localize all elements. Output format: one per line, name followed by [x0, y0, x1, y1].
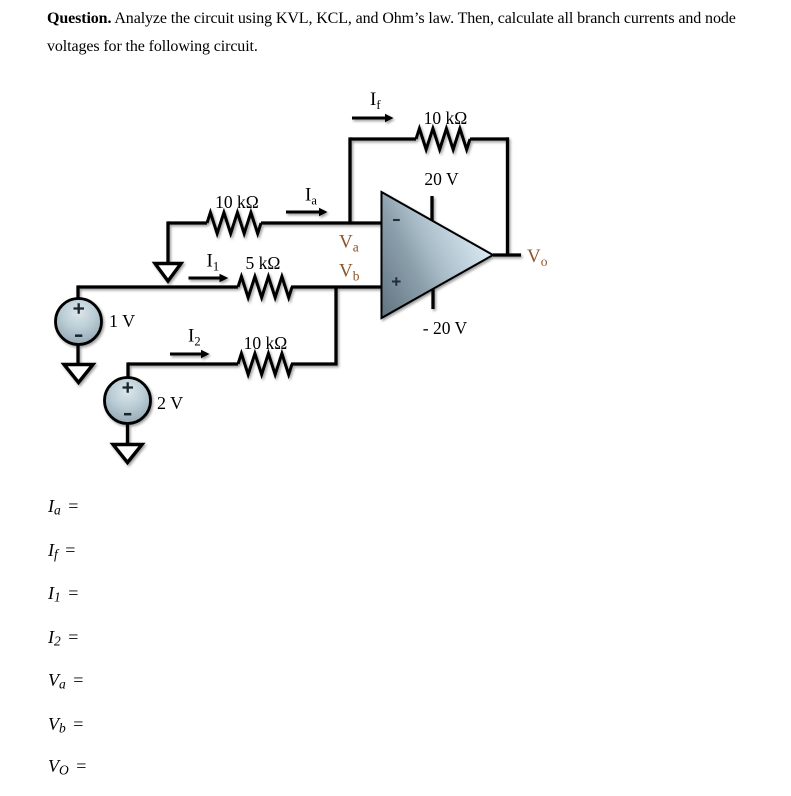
wire feedback left vertical down to inverting input	[348, 137, 351, 223]
svg-text:10 kΩ: 10 kΩ	[215, 192, 259, 212]
wire feedback top-left segment	[350, 137, 416, 140]
voltage source V2 2V circle	[105, 378, 151, 424]
ground G3	[113, 445, 142, 463]
svg-text:10 kΩ: 10 kΩ	[424, 108, 468, 128]
arrow I1	[189, 277, 221, 280]
arrow I2	[170, 353, 202, 356]
wire feedback top-right segment	[470, 137, 509, 140]
wire V2 bottom vertical	[126, 423, 129, 443]
V2 minus sign	[124, 413, 131, 416]
svg-text:1 V: 1 V	[109, 311, 135, 331]
wire Vb node right segment to non-inverting input	[291, 285, 382, 288]
V1 minus sign	[75, 334, 82, 337]
svg-text:I1: I1	[207, 251, 220, 274]
answer line Vb	[48, 714, 83, 735]
ground G2	[64, 365, 93, 383]
question paragraph	[47, 5, 759, 61]
answer line Ia	[48, 496, 78, 517]
wire Vb node left segment	[78, 285, 238, 288]
answer line Vo	[48, 756, 86, 777]
resistor R2 5k zigzag	[238, 277, 292, 298]
answer line Va	[48, 670, 83, 691]
wire inverting input node Va	[261, 221, 382, 224]
svg-text:- 20 V: - 20 V	[423, 318, 468, 338]
wire negative supply stub	[431, 289, 434, 309]
ground G1	[155, 264, 181, 282]
answer line If	[48, 540, 75, 561]
resistor Rf 10k feedback zigzag	[416, 129, 470, 150]
wire R1 left lead	[168, 221, 207, 224]
svg-text:If: If	[370, 89, 381, 112]
wire R1 down to ground	[166, 221, 169, 262]
svg-text:2 V: 2 V	[157, 393, 183, 413]
arrow Ia	[286, 211, 320, 214]
V1 plus sign	[74, 303, 85, 313]
wire Vb junction vertical	[334, 287, 337, 364]
op-amp minus sign	[393, 219, 400, 221]
resistor R3 10k zigzag	[238, 354, 292, 375]
answer line I1	[48, 583, 78, 604]
svg-text:10 kΩ: 10 kΩ	[244, 333, 288, 353]
svg-text:Ia: Ia	[305, 185, 317, 208]
wire V2 top vertical	[126, 362, 129, 378]
wire V1 top vertical	[76, 285, 79, 299]
answer line I2	[48, 627, 78, 648]
resistor R1 10k zigzag	[207, 213, 261, 234]
wire positive supply stub	[430, 196, 433, 221]
svg-text:20 V: 20 V	[424, 169, 459, 189]
wire I2 left segment	[128, 362, 238, 365]
arrow If	[352, 117, 386, 120]
wire feedback right vertical	[506, 137, 509, 255]
voltage source V1 1V circle	[56, 299, 102, 345]
svg-text:Vo: Vo	[527, 246, 548, 269]
op-amp U1 triangle	[382, 192, 494, 318]
wire V1 bottom vertical	[76, 344, 79, 363]
wire I2 right segment	[291, 362, 338, 365]
svg-text:I2: I2	[188, 325, 201, 348]
svg-text:Vb: Vb	[339, 261, 360, 284]
svg-text:Va: Va	[339, 232, 359, 255]
op-amp plus sign	[392, 277, 401, 286]
wire output stub Vo	[493, 253, 521, 256]
svg-text:5 kΩ: 5 kΩ	[246, 253, 281, 273]
V2 plus sign	[123, 382, 134, 392]
